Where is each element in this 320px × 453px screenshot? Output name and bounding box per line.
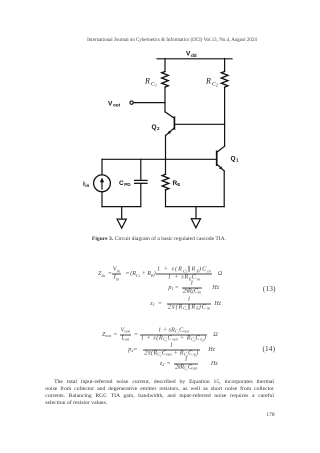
page number [266, 412, 274, 418]
Vdd rail [157, 58, 232, 60]
wire: right branch down to Q1 [224, 87, 226, 146]
Vdd label [186, 51, 197, 58]
wire: Q1 emitter down [223, 171, 225, 207]
wire: RE bottom [165, 190, 167, 207]
current source Iin [94, 159, 111, 206]
Q1 base bar [216, 151, 218, 165]
svg-text:in: in [85, 183, 89, 188]
wire: left branch mid [164, 87, 166, 112]
svg-text:1: 1 [236, 158, 239, 163]
equation (13) [98, 271, 105, 277]
svg-text:out: out [113, 103, 121, 108]
svg-text:Q: Q [152, 124, 157, 131]
label RE [173, 180, 181, 187]
ground (right) [191, 207, 200, 228]
eq number (13) [263, 285, 276, 293]
Q2 collector lead [165, 112, 174, 119]
Q2 emitter lead with arrow [166, 128, 174, 135]
label RC1 [144, 77, 157, 88]
Q1 collector lead [217, 146, 225, 152]
equation (14) [102, 332, 111, 338]
wire: Vout to left branch [133, 102, 165, 104]
CPD top lead [140, 159, 142, 180]
Iin top lead [101, 159, 103, 175]
svg-text:Q: Q [231, 156, 236, 163]
Iin bottom lead [101, 192, 103, 207]
resistor RC1 [162, 72, 169, 88]
svg-text:2: 2 [157, 126, 160, 131]
svg-text:PD: PD [124, 182, 131, 187]
transistor Q1 [217, 146, 225, 171]
Q1 emitter lead with arrow [217, 164, 225, 171]
Vout terminal circle [130, 101, 133, 104]
CPD bottom lead [140, 184, 142, 207]
label Q1 [231, 156, 240, 163]
figure caption [0, 236, 318, 242]
svg-text:2: 2 [216, 82, 218, 87]
wire: Q2 emitter down through node to RE [165, 135, 167, 174]
CPD plates [135, 179, 147, 181]
body paragraph [45, 379, 274, 408]
label RC2 [205, 77, 218, 88]
capacitor CPD [135, 159, 147, 206]
eq number (14) [263, 345, 276, 353]
circuit schematic SVG [60, 45, 260, 235]
node wire (input node) [102, 158, 217, 160]
wire: left branch top [164, 59, 166, 72]
label CPD [119, 180, 131, 187]
svg-text:1: 1 [155, 82, 157, 87]
resistor RE [162, 174, 169, 190]
svg-text:dd: dd [191, 53, 197, 58]
transistor Q2 [165, 112, 174, 135]
Iin arrow [101, 180, 103, 189]
resistor RC2 [221, 72, 228, 88]
label Iin [83, 181, 89, 188]
wire: right branch top [224, 59, 226, 72]
bottom-left wire [102, 206, 141, 208]
header: journal line [12, 38, 320, 43]
Iin circle [94, 175, 111, 192]
svg-text:R: R [144, 77, 150, 86]
Vout label [108, 100, 121, 107]
ground (left) [117, 207, 126, 229]
label Q2 [152, 124, 161, 131]
svg-text:E: E [177, 182, 180, 187]
svg-text:R: R [205, 77, 211, 86]
Q2 base bar [173, 117, 175, 129]
bottom-right wire [166, 206, 225, 208]
wire: Q2 base to right branch [174, 123, 224, 125]
